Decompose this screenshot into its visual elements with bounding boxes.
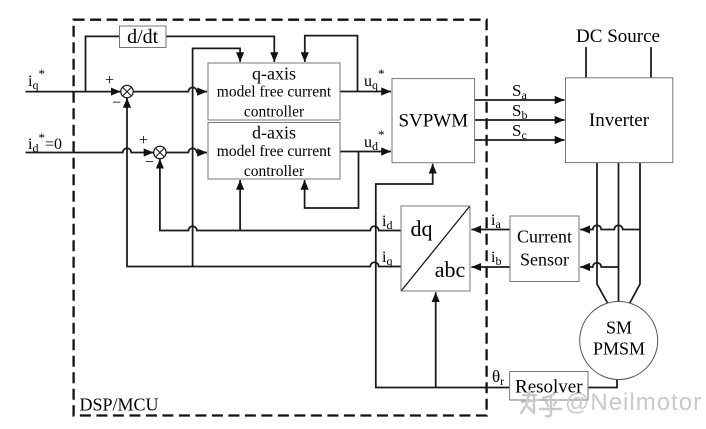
wire u_d* feedback into d-axis bottom [305,152,359,209]
svg-text:@Neilmotor: @Neilmotor [565,389,702,416]
wire Sb [475,119,565,121]
wire i_d branch up into d-axis bottom [239,180,241,231]
block d-axis model free current controller [208,123,340,181]
svg-text:SM: SM [606,318,632,338]
wire i_q feedback up to q-axis top [193,48,241,266]
svg-text:DSP/MCU: DSP/MCU [80,395,159,415]
svg-text:Sensor: Sensor [520,250,569,270]
wire i_b tap into current sensor (hop at x=597) [580,263,618,267]
svg-text:PMSM: PMSM [593,339,645,359]
svg-text:controller: controller [244,104,305,121]
wire junction1 to q-axis controller (hop at x=192.6) [133,87,207,91]
wire inverter phase a [597,163,608,304]
DSP/MCU dashed boundary [74,20,487,416]
svg-text:dq: dq [411,216,433,241]
svg-text:abc: abc [435,257,466,282]
wire Sc [475,139,565,141]
wire i_q feedback from dq/abc to junction1 (hop at x=374.5) [127,98,401,267]
block d/dt [120,26,167,48]
motor SM PMSM [580,302,658,380]
wire inverter phase b [618,163,620,302]
block Inverter [566,78,673,163]
wire u_d* to SVPWM [340,151,391,153]
svg-text:SVPWM: SVPWM [398,111,468,132]
wire theta_r from resolver up into SVPWM bottom [376,164,510,388]
wire branch to d/dt [86,36,120,91]
svg-text:DC Source: DC Source [576,26,660,47]
wire u_q* feedback into q-axis top [305,36,358,92]
svg-text:−: − [112,95,121,112]
block SVPWM [392,79,475,163]
block dq/abc transform [401,206,470,291]
svg-text:Inverter: Inverter [589,110,650,131]
wire i_q* reference input [26,91,121,93]
svg-text:+: + [139,132,148,149]
svg-text:+: + [105,72,114,89]
svg-text:Current: Current [517,227,572,247]
wire Sa [475,99,565,101]
svg-text:d/dt: d/dt [127,26,159,48]
wire theta_r branch into dq/abc bottom [435,292,437,387]
svg-text:model free current: model free current [217,84,332,101]
wire i_a into dq/abc [471,229,510,231]
wire d/dt output into q-axis top [166,36,274,62]
wire u_q* to SVPWM [340,91,391,93]
wire junction2 to d-axis controller (hop at x=192.6) [166,148,207,152]
svg-text:q-axis: q-axis [252,64,296,84]
wire i_a tap into current sensor (hops at x=618.5, x=597) [580,225,640,229]
summing junction 1 [105,72,133,112]
block Current Sensor [510,216,579,282]
wire DC source left lead [585,47,587,78]
summing junction 2 [139,132,166,171]
wire i_d feedback from dq/abc to junction2 (hops at x=374.5, x=192.6) [160,159,401,231]
svg-text:−: − [145,154,154,171]
wire inverter phase c [630,163,641,304]
wire i_b into dq/abc [471,266,510,268]
block Resolver [510,372,588,401]
svg-text:model free current: model free current [217,143,332,160]
wire i_d*=0 input (hop at x=127) [26,148,154,152]
svg-text:controller: controller [244,163,305,180]
watermark zhihu @Neilmotor [521,391,561,416]
block q-axis model free current controller [208,63,340,121]
wire motor to resolver [588,379,617,387]
wire DC source right lead [650,47,652,78]
svg-text:d-axis: d-axis [252,123,296,143]
